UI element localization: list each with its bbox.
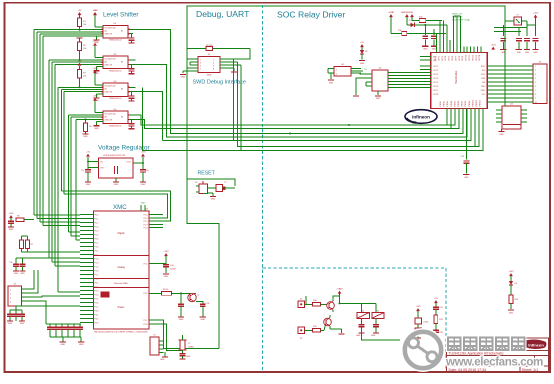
svg-text:C29: C29	[439, 307, 442, 309]
dashed region box (bottom relay area)	[263, 268, 446, 370]
svg-text:GND: GND	[79, 344, 84, 346]
svg-text:10: 10	[535, 102, 537, 104]
capacitor row C23	[524, 25, 530, 54]
svg-text:GND: GND	[181, 77, 186, 79]
capacitor C12	[16, 258, 80, 275]
svg-text:2: 2	[535, 70, 536, 72]
svg-text:+5V: +5V	[86, 151, 90, 153]
wire XMC left pin stubs	[80, 215, 93, 323]
title block frame	[447, 338, 549, 373]
capacitor C28	[371, 318, 379, 337]
label XMC right pin names	[144, 214, 148, 325]
capacitor C16	[196, 302, 210, 322]
ground VR	[113, 178, 119, 186]
svg-text:+3V3: +3V3	[416, 306, 422, 308]
svg-text:P3.3: P3.3	[95, 322, 99, 324]
label RESET	[198, 171, 216, 177]
svg-text:P2.1: P2.1	[95, 282, 99, 284]
svg-text:P2.5: P2.5	[95, 298, 99, 300]
wire LS2 output	[133, 64, 467, 137]
svg-text:12MHz: 12MHz	[188, 347, 194, 349]
svg-text:P1.4: P1.4	[95, 262, 99, 264]
wire debug left rail	[187, 49, 219, 349]
svg-text:P1.0: P1.0	[144, 214, 148, 216]
resistor R14	[313, 300, 328, 306]
block B1	[415, 318, 429, 324]
IC U4 small	[496, 104, 527, 130]
label Debug, UART	[196, 9, 250, 19]
IC U2 XMC microcontroller	[93, 209, 149, 330]
resistor R10	[391, 30, 446, 35]
title block doc text	[449, 361, 544, 365]
svg-text:CSN: CSN	[481, 78, 486, 80]
wire bus-to-XMC hooks	[34, 215, 80, 292]
svg-text:+VBAT: +VBAT	[388, 11, 395, 14]
svg-text:R9 1k: R9 1k	[163, 289, 168, 291]
svg-text:P1.4: P1.4	[144, 227, 148, 229]
svg-text:+5V: +5V	[78, 60, 82, 62]
svg-text:OUT6: OUT6	[452, 56, 454, 61]
svg-text:6: 6	[535, 86, 536, 88]
svg-text:GND: GND	[9, 229, 14, 231]
svg-text:P2.7: P2.7	[95, 306, 99, 308]
capacitor C15	[178, 292, 184, 321]
IC U2 level shifter	[103, 54, 128, 73]
power XMC vdd pins	[141, 203, 146, 212]
svg-text:OUT1: OUT1	[433, 66, 438, 68]
svg-text:B1: B1	[121, 61, 123, 63]
svg-text:OUT8: OUT8	[459, 56, 461, 61]
ground crystal	[160, 352, 168, 361]
resistor R15	[313, 326, 325, 332]
svg-text:5: 5	[535, 82, 536, 84]
wire u9 left drops	[353, 73, 366, 96]
transistor Q1	[327, 299, 335, 312]
svg-text:+3V3: +3V3	[93, 96, 99, 98]
wire U3 right stubs	[102, 87, 136, 91]
svg-text:P1.5: P1.5	[95, 266, 99, 268]
IC U3 level shifter	[103, 81, 128, 100]
svg-text:SOC Relay Driver: SOC Relay Driver	[277, 10, 345, 20]
capacitor C10	[8, 213, 14, 231]
connector X4	[8, 283, 28, 306]
ground swd	[180, 75, 186, 79]
svg-text:GND: GND	[8, 323, 13, 325]
svg-text:P3.0: P3.0	[95, 310, 99, 312]
capacitor bank C20-C25	[46, 324, 83, 337]
power VCC rail top-left	[93, 10, 97, 15]
crystal Y1	[179, 335, 195, 351]
logo Infineon titleblock	[523, 340, 546, 349]
wire LS4 output a	[136, 110, 456, 125]
svg-text:+3V3: +3V3	[93, 41, 99, 43]
resistor R13	[508, 295, 519, 315]
wire VR output rail B	[64, 194, 168, 218]
label band nets	[412, 123, 417, 125]
svg-text:VCCA VCCB: VCCA VCCB	[105, 27, 117, 30]
svg-text:P0.7: P0.7	[95, 242, 99, 244]
svg-text:+5V: +5V	[360, 42, 364, 44]
svg-text:OUT9: OUT9	[462, 56, 464, 61]
svg-text:OUT5: OUT5	[449, 56, 451, 61]
svg-text:P1.2: P1.2	[95, 254, 99, 256]
svg-text:100nF: 100nF	[170, 269, 176, 271]
svg-text:OUT12: OUT12	[472, 55, 474, 61]
wire relay top rail	[306, 296, 376, 313]
IC U3 TLE94112EL	[431, 52, 488, 108]
svg-text:OUT2: OUT2	[433, 70, 438, 72]
capacitor row C22	[516, 28, 522, 54]
watermark www.elecfans.com	[445, 356, 543, 369]
svg-text:P2.0: P2.0	[95, 278, 99, 280]
capacitor C7 reset	[208, 182, 236, 192]
capacitor C2a	[128, 64, 134, 73]
svg-text:GND: GND	[499, 134, 504, 136]
svg-text:GND: GND	[356, 335, 361, 337]
watermark logo circle	[405, 332, 441, 368]
label XMC part number	[94, 332, 149, 334]
svg-text:6: 6	[213, 66, 214, 68]
svg-text:GND: GND	[83, 136, 88, 138]
svg-text:XMC: XMC	[113, 204, 127, 211]
switch S1 reset	[195, 181, 208, 194]
svg-text:3: 3	[10, 298, 11, 300]
diode D2	[359, 42, 369, 65]
svg-text:PWM2: PWM2	[444, 101, 446, 107]
IC U8 hall	[328, 64, 367, 76]
capacitor C6	[140, 163, 150, 186]
power VCC U4	[93, 96, 103, 113]
svg-text:PWM11: PWM11	[476, 100, 478, 107]
region outline Debug/SOC green box	[187, 6, 505, 179]
wire LS4 output b	[133, 110, 459, 128]
svg-text:GND: GND	[86, 184, 91, 186]
resistor R9	[149, 289, 192, 296]
svg-text:8: 8	[535, 94, 536, 96]
svg-text:GND: GND	[60, 344, 65, 346]
ground reset	[203, 193, 216, 201]
resistor R4	[82, 118, 92, 138]
svg-text:GND OE: GND OE	[105, 92, 113, 94]
wire level-shifter input lines	[34, 30, 103, 120]
svg-text:GND: GND	[376, 98, 381, 100]
wire reset rail	[187, 179, 235, 185]
capacitor C19	[422, 24, 428, 51]
junction band dot	[289, 124, 350, 135]
svg-text:TXB0102DCU: TXB0102DCU	[109, 125, 122, 127]
wire VR input	[87, 157, 99, 168]
wire SWD band b	[238, 62, 479, 147]
svg-text:U5 IFX54441LDV33 V33: U5 IFX54441LDV33 V33	[103, 155, 126, 157]
svg-text:P0.1: P0.1	[95, 218, 99, 220]
svg-text:OUT13: OUT13	[476, 55, 478, 61]
svg-text:8: 8	[213, 69, 214, 71]
svg-text:SDI: SDI	[482, 70, 486, 72]
svg-text:VDDIO 3.3V / 5mA: VDDIO 3.3V / 5mA	[452, 19, 470, 22]
svg-text:Power: Power	[118, 306, 125, 309]
wire relay output	[362, 333, 401, 340]
svg-text:7: 7	[535, 90, 536, 92]
capacitor C14	[149, 251, 176, 278]
svg-text:+3V3: +3V3	[509, 271, 515, 273]
svg-text:4: 4	[10, 302, 11, 304]
capacitor C3a	[128, 92, 134, 101]
svg-text:SDO: SDO	[481, 66, 486, 68]
svg-text:P0.5: P0.5	[95, 234, 99, 236]
wire U4 right stubs	[102, 115, 136, 119]
capacitor row C24	[532, 25, 538, 54]
power VCC VR out	[141, 151, 147, 156]
oscillator Y2	[514, 15, 527, 26]
wire left bus verticals	[34, 30, 76, 292]
IC U5 voltage regulator	[99, 155, 134, 178]
svg-text:P0.2: P0.2	[95, 222, 99, 224]
component chain right	[433, 298, 443, 338]
svg-text:Infineon: Infineon	[412, 115, 430, 120]
svg-text:+5V: +5V	[93, 10, 97, 12]
wire U3 right pins	[487, 66, 527, 102]
svg-text:OUT14: OUT14	[479, 55, 481, 61]
svg-text:P3.1: P3.1	[95, 314, 99, 316]
svg-text:1: 1	[336, 70, 337, 72]
svg-text:3: 3	[200, 63, 201, 65]
svg-text:+3V3: +3V3	[93, 68, 99, 70]
label XMC	[113, 204, 127, 211]
svg-text:+3V3: +3V3	[9, 213, 15, 215]
svg-text:+3V3: +3V3	[141, 151, 147, 153]
resistor R3	[78, 60, 87, 88]
svg-text:TXB0102DCU: TXB0102DCU	[109, 40, 122, 42]
wire swd left pins	[183, 59, 198, 73]
svg-text:LED1: LED1	[424, 322, 430, 324]
power VCC u3	[491, 44, 497, 49]
svg-text:GND: GND	[20, 323, 25, 325]
svg-text:GND: GND	[525, 52, 530, 54]
logo Infineon ellipse	[405, 110, 437, 124]
svg-text:OUT3: OUT3	[442, 56, 444, 61]
label SOC Relay Driver	[277, 10, 345, 20]
svg-text:+3V3: +3V3	[491, 44, 497, 46]
dashed region divider (SOC Relay Driver)	[262, 5, 264, 371]
svg-text:P2.4: P2.4	[95, 294, 99, 296]
svg-text:VDD: VDD	[141, 203, 146, 205]
svg-text:OUT2: OUT2	[438, 56, 440, 61]
title block sheet	[522, 368, 538, 372]
svg-text:PWM3: PWM3	[447, 101, 449, 107]
svg-text:P1.7: P1.7	[144, 320, 148, 322]
svg-text:R16: R16	[439, 319, 442, 321]
ground relay q	[338, 329, 344, 334]
power VCC vbat	[388, 11, 395, 34]
svg-text:P1.8: P1.8	[144, 324, 148, 326]
svg-text:GND: GND	[371, 335, 376, 337]
svg-text:VIO: VIO	[482, 94, 486, 96]
svg-text:P1.5: P1.5	[144, 263, 148, 265]
svg-text:Analog: Analog	[117, 266, 125, 269]
svg-text:P1.3: P1.3	[95, 258, 99, 260]
svg-text:GND: GND	[481, 90, 486, 92]
title block date	[449, 368, 487, 372]
relay K2	[372, 310, 384, 318]
svg-text:GND: GND	[186, 356, 191, 358]
svg-text:Ethernet/JTAG: Ethernet/JTAG	[114, 282, 128, 285]
svg-text:www.elecfans.com: www.elecfans.com	[445, 356, 543, 369]
svg-text:GND: GND	[160, 359, 165, 361]
resistor R7 R8 pair	[20, 236, 80, 252]
label SWD Debug Interface	[193, 80, 247, 86]
wire y2 rails	[494, 21, 536, 32]
wire swd top loop	[232, 49, 251, 60]
resistor R6	[16, 216, 34, 222]
svg-text:TXB0102DCU: TXB0102DCU	[109, 70, 122, 72]
svg-text:A1: A1	[105, 30, 107, 33]
svg-text:+3V3: +3V3	[164, 251, 170, 253]
capacitor C5	[81, 168, 91, 187]
block B2	[415, 324, 430, 338]
svg-text:C26: C26	[461, 156, 464, 158]
svg-text:A1: A1	[105, 88, 107, 91]
power VCC grp	[416, 306, 422, 318]
svg-text:+5V: +5V	[78, 10, 82, 12]
svg-text:PWM6: PWM6	[458, 101, 460, 107]
wire SWD band a	[233, 59, 235, 141]
svg-text:Digital: Digital	[118, 232, 125, 235]
wire crystal rails	[149, 320, 219, 351]
relay K1	[357, 310, 369, 318]
svg-text:GND OE: GND OE	[105, 34, 113, 36]
wire band y140	[163, 110, 472, 141]
resistor R5 swd	[187, 45, 250, 51]
svg-text:2: 2	[336, 74, 337, 76]
wire U1 right stubs	[102, 29, 136, 33]
power VCC y2	[533, 12, 539, 25]
svg-text:GND: GND	[329, 83, 334, 85]
wire U2 right stubs	[102, 60, 136, 64]
label Voltage Regulator	[98, 145, 151, 152]
capacitor C1a	[128, 34, 134, 43]
svg-text:P0.6: P0.6	[95, 238, 99, 240]
svg-text:PWM5: PWM5	[454, 101, 456, 107]
svg-text:OUT8: OUT8	[433, 94, 438, 96]
power VCC VR in	[86, 151, 90, 156]
svg-text:GND: GND	[200, 319, 205, 321]
capacitor C17	[179, 351, 191, 360]
wire X4 links	[28, 270, 80, 324]
svg-text:B1: B1	[121, 116, 123, 118]
svg-text:P1.7: P1.7	[95, 274, 99, 276]
LED D3 chain	[509, 271, 518, 295]
svg-text:TXB0102DCU: TXB0102DCU	[109, 98, 122, 100]
svg-text:GND: GND	[164, 276, 169, 278]
svg-text:VBATSENSE: VBATSENSE	[401, 11, 414, 14]
ground U2	[93, 67, 103, 75]
diode D1	[407, 20, 447, 27]
svg-text:GND: GND	[14, 273, 19, 275]
wire u4 gnd	[498, 118, 521, 136]
svg-text:Level Shifter: Level Shifter	[103, 11, 139, 18]
svg-text:3: 3	[535, 74, 536, 76]
svg-text:SWD: SWD	[207, 75, 212, 77]
svg-text:GND OE: GND OE	[105, 119, 113, 121]
capacitor C27	[356, 318, 365, 337]
title block title text	[449, 352, 504, 356]
wire U3 top pins	[437, 16, 481, 52]
svg-text:OUT7: OUT7	[455, 56, 457, 61]
svg-text:10k: 10k	[83, 76, 86, 78]
svg-text:OUT11: OUT11	[469, 55, 471, 61]
svg-text:GND: GND	[533, 52, 538, 54]
svg-text:B1: B1	[121, 89, 123, 91]
svg-text:1: 1	[10, 290, 11, 292]
svg-text:PWM1: PWM1	[440, 101, 442, 107]
svg-text:P3.2: P3.2	[95, 318, 99, 320]
capacitor row C21	[500, 25, 506, 54]
wire swd right pins	[220, 59, 241, 68]
svg-text:VCCA VCCB: VCCA VCCB	[105, 112, 117, 115]
connector X5	[527, 62, 547, 104]
svg-text:R5 330: R5 330	[206, 45, 213, 47]
svg-text:P1.2: P1.2	[144, 221, 148, 223]
svg-text:OUT10: OUT10	[466, 55, 468, 61]
wire swd drop	[231, 68, 237, 72]
svg-text:PWM12: PWM12	[480, 100, 482, 107]
power VCC U1	[93, 10, 103, 27]
svg-text:9: 9	[535, 98, 536, 100]
svg-text:7: 7	[200, 69, 201, 71]
svg-text:GND: GND	[432, 49, 437, 51]
IC U6 SWD header	[198, 54, 220, 77]
svg-text:B1: B1	[121, 31, 123, 33]
pad X3	[298, 327, 313, 340]
wire VR out	[133, 157, 144, 164]
svg-text:+5V: +5V	[434, 298, 438, 300]
label net names top	[452, 14, 470, 22]
wire LS3 output	[133, 92, 163, 141]
svg-text:OUT4: OUT4	[433, 78, 438, 80]
svg-text:+VBAT: +VBAT	[336, 287, 343, 290]
ground U4	[93, 122, 103, 130]
svg-text:GND OE: GND OE	[105, 64, 113, 66]
svg-text:+3V3: +3V3	[533, 12, 539, 14]
resistor R11	[412, 17, 442, 23]
power VCC relay	[336, 287, 343, 303]
capacitor C13 group	[7, 306, 80, 325]
svg-text:P1.3: P1.3	[144, 224, 148, 226]
svg-text:P2.6: P2.6	[95, 302, 99, 304]
ground U3	[93, 94, 103, 102]
svg-text:PWM4: PWM4	[451, 101, 453, 107]
svg-text:PWM9: PWM9	[469, 101, 471, 107]
wire U3 left pins	[394, 57, 431, 88]
svg-text:VCCA VCCB: VCCA VCCB	[105, 85, 117, 88]
wire XMC right pin stubs	[149, 215, 163, 325]
wire top rail to crystal	[505, 6, 514, 21]
svg-text:PWM7: PWM7	[462, 101, 464, 107]
svg-text:2: 2	[213, 60, 214, 62]
svg-text:GND: GND	[179, 319, 184, 321]
svg-text:GND: GND	[114, 184, 119, 186]
svg-text:P1.6: P1.6	[144, 293, 148, 295]
svg-text:P1.1: P1.1	[144, 218, 148, 220]
svg-text:GND: GND	[360, 63, 365, 65]
svg-text:4: 4	[535, 78, 536, 80]
IC U4 level shifter	[103, 109, 128, 128]
svg-text:VS2: VS2	[433, 60, 437, 62]
power VCC d2	[410, 14, 414, 20]
svg-text:P1.6: P1.6	[95, 270, 99, 272]
ground u9	[375, 91, 381, 100]
IC U9 spi isolator	[366, 68, 394, 92]
